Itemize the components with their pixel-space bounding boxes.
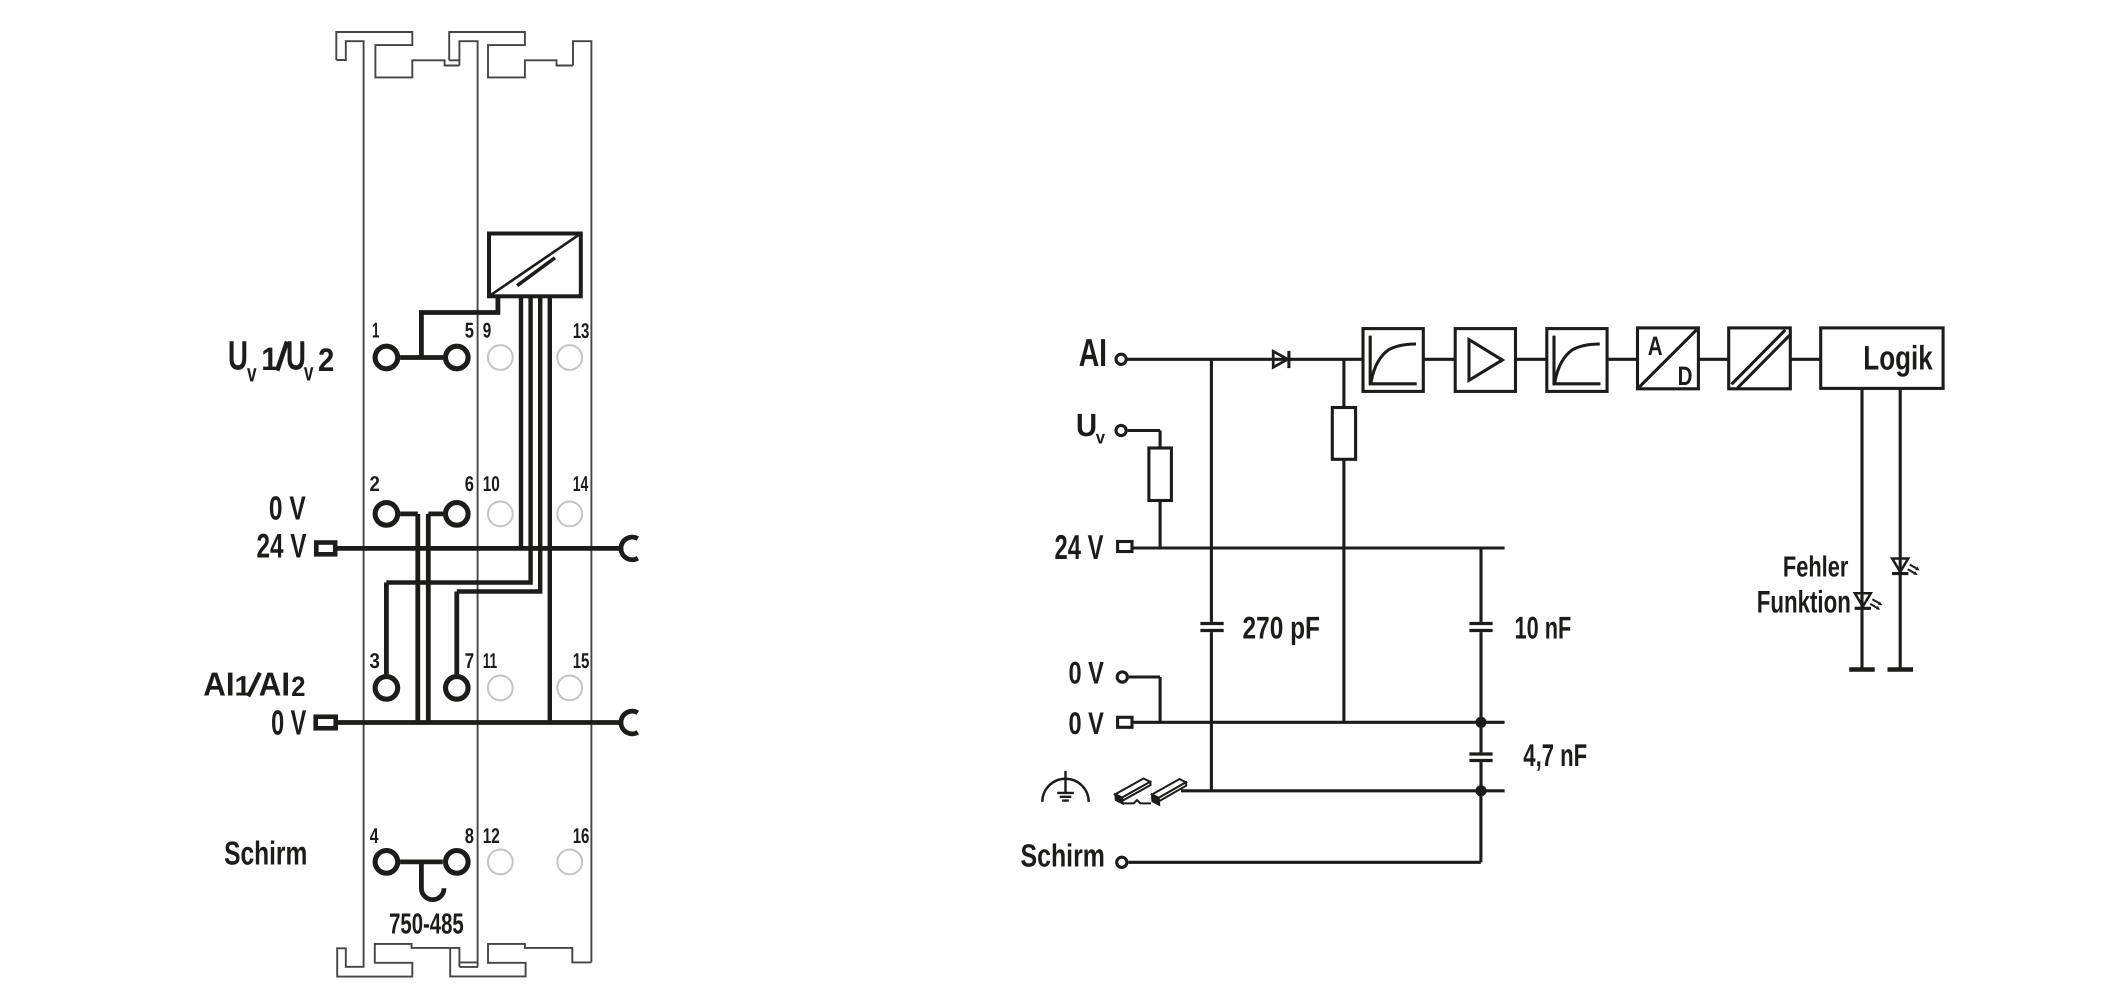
svg-text:2: 2 (370, 472, 380, 496)
svg-text:4,7 nF: 4,7 nF (1523, 738, 1587, 773)
svg-text:7: 7 (465, 649, 474, 673)
svg-text:Fehler: Fehler (1783, 552, 1848, 584)
svg-text:Schirm: Schirm (224, 836, 307, 873)
svg-text:750-485: 750-485 (389, 909, 464, 941)
svg-text:10 nF: 10 nF (1515, 610, 1572, 645)
svg-text:Schirm: Schirm (1021, 838, 1105, 874)
svg-text:3: 3 (370, 649, 380, 673)
svg-text:0 V: 0 V (271, 703, 307, 742)
svg-text:AI: AI (203, 667, 234, 704)
svg-text:2: 2 (318, 341, 334, 378)
svg-text:270 pF: 270 pF (1243, 610, 1320, 645)
svg-text:9: 9 (483, 319, 492, 343)
svg-text:Funktion: Funktion (1757, 585, 1851, 620)
svg-text:24 V: 24 V (257, 528, 307, 566)
svg-text:15: 15 (573, 649, 590, 673)
svg-text:14: 14 (573, 472, 589, 496)
svg-text:11: 11 (483, 649, 498, 673)
svg-text:AI: AI (259, 667, 290, 704)
svg-text:D: D (1678, 361, 1693, 391)
svg-text:10: 10 (483, 472, 500, 496)
svg-text:0 V: 0 V (269, 491, 306, 528)
svg-text:A: A (1648, 331, 1663, 361)
svg-text:12: 12 (483, 824, 500, 848)
svg-text:1: 1 (261, 340, 278, 377)
svg-text:0 V: 0 V (1069, 706, 1104, 741)
svg-text:24 V: 24 V (1055, 529, 1104, 567)
svg-text:Logik: Logik (1863, 339, 1932, 377)
svg-text:13: 13 (573, 319, 590, 343)
svg-text:1: 1 (235, 671, 251, 702)
svg-text:2: 2 (291, 671, 305, 702)
svg-text:1: 1 (372, 319, 380, 343)
svg-text:U: U (228, 333, 248, 379)
svg-text:v: v (247, 359, 257, 387)
svg-text:v: v (1096, 428, 1106, 448)
svg-text:8: 8 (465, 824, 474, 848)
svg-text:U: U (286, 333, 306, 379)
svg-text:5: 5 (465, 319, 474, 343)
svg-text:4: 4 (370, 824, 379, 848)
svg-text:0 V: 0 V (1069, 656, 1104, 691)
svg-text:AI: AI (1079, 332, 1107, 375)
svg-text:6: 6 (465, 472, 474, 496)
svg-text:v: v (304, 359, 314, 387)
svg-text:U: U (1076, 407, 1097, 443)
svg-text:16: 16 (573, 824, 590, 848)
